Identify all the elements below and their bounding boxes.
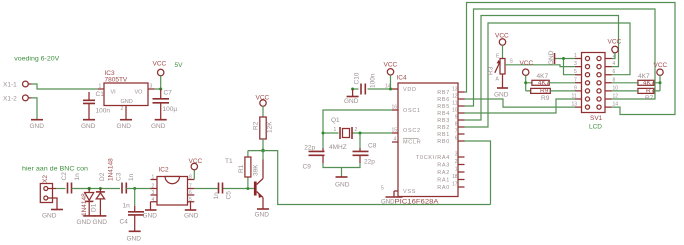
svg-text:1: 1 xyxy=(455,167,458,173)
svg-text:7: 7 xyxy=(189,184,192,190)
svg-text:7: 7 xyxy=(455,129,458,135)
svg-text:GND: GND xyxy=(121,99,133,105)
svg-text:RB2: RB2 xyxy=(437,125,450,131)
svg-text:1n: 1n xyxy=(128,173,135,181)
svg-text:RB0: RB0 xyxy=(437,139,450,145)
svg-text:GND: GND xyxy=(344,98,359,105)
svg-text:13: 13 xyxy=(452,87,458,93)
svg-text:GND: GND xyxy=(255,212,270,219)
svg-text:7: 7 xyxy=(574,77,577,83)
svg-text:1N4148: 1N4148 xyxy=(108,158,115,181)
svg-text:PIC16F628A: PIC16F628A xyxy=(395,199,440,206)
svg-text:4: 4 xyxy=(613,61,616,67)
svg-text:22p: 22p xyxy=(364,159,375,166)
svg-text:3: 3 xyxy=(150,84,153,90)
svg-text:T1: T1 xyxy=(225,158,233,165)
svg-text:100n: 100n xyxy=(370,73,377,88)
svg-text:1: 1 xyxy=(152,175,155,181)
svg-text:8: 8 xyxy=(189,175,192,181)
svg-text:GND: GND xyxy=(184,213,199,220)
svg-text:X2: X2 xyxy=(42,175,49,183)
svg-text:VCC: VCC xyxy=(608,39,622,46)
svg-text:R1: R1 xyxy=(238,164,245,173)
svg-text:4K7: 4K7 xyxy=(538,80,550,87)
svg-text:VCC: VCC xyxy=(495,33,509,40)
svg-text:39K: 39K xyxy=(253,164,260,176)
svg-text:C2: C2 xyxy=(61,172,68,181)
svg-text:C1: C1 xyxy=(96,91,105,98)
svg-text:VCC: VCC xyxy=(654,62,668,69)
svg-text:voeding 6-20V: voeding 6-20V xyxy=(14,56,60,63)
svg-text:7805TV: 7805TV xyxy=(105,77,128,84)
svg-text:OSC2: OSC2 xyxy=(403,128,421,134)
svg-text:C9: C9 xyxy=(303,164,312,171)
svg-text:IC4: IC4 xyxy=(397,75,408,82)
svg-text:X1-2: X1-2 xyxy=(3,96,17,103)
svg-text:1n: 1n xyxy=(123,203,131,210)
svg-text:C5: C5 xyxy=(226,191,233,200)
svg-text:R7: R7 xyxy=(645,95,654,102)
svg-text:100n: 100n xyxy=(96,108,111,115)
svg-text:3: 3 xyxy=(152,190,155,196)
svg-text:hier aan de BNC con: hier aan de BNC con xyxy=(22,166,88,173)
svg-text:1: 1 xyxy=(334,127,337,133)
svg-text:4MHZ: 4MHZ xyxy=(329,144,347,151)
svg-text:100µ: 100µ xyxy=(163,106,178,113)
svg-text:GND: GND xyxy=(335,182,350,189)
svg-text:RA1: RA1 xyxy=(437,178,450,184)
svg-text:T0CKI/RA4: T0CKI/RA4 xyxy=(416,155,450,161)
svg-text:VCC: VCC xyxy=(520,60,534,67)
svg-text:Q1: Q1 xyxy=(331,117,340,124)
svg-text:1N4148: 1N4148 xyxy=(81,193,88,216)
svg-text:3: 3 xyxy=(455,152,458,158)
svg-text:RB6: RB6 xyxy=(437,97,450,103)
svg-text:R2: R2 xyxy=(253,121,260,130)
svg-text:RA2: RA2 xyxy=(437,170,450,176)
svg-text:D2: D2 xyxy=(99,172,106,181)
svg-text:15: 15 xyxy=(391,128,397,134)
svg-text:4K7: 4K7 xyxy=(643,80,655,87)
svg-text:5V: 5V xyxy=(175,62,184,69)
svg-text:GND: GND xyxy=(151,123,166,130)
svg-text:GND: GND xyxy=(81,123,96,130)
svg-text:D1: D1 xyxy=(91,203,98,212)
svg-text:16: 16 xyxy=(391,105,397,111)
svg-text:RB7: RB7 xyxy=(437,90,450,96)
svg-text:6: 6 xyxy=(189,190,192,196)
svg-text:VCC: VCC xyxy=(256,95,270,102)
svg-text:14: 14 xyxy=(613,102,619,108)
svg-text:GND: GND xyxy=(77,219,92,226)
svg-text:6: 6 xyxy=(455,136,458,142)
svg-text:GND: GND xyxy=(117,123,132,130)
svg-text:3: 3 xyxy=(574,61,577,67)
svg-text:1n: 1n xyxy=(74,173,81,181)
svg-text:5: 5 xyxy=(574,69,577,75)
svg-text:VSS: VSS xyxy=(403,189,416,195)
svg-text:RA0: RA0 xyxy=(437,185,450,191)
svg-text:11: 11 xyxy=(572,94,577,100)
svg-text:4: 4 xyxy=(394,137,397,143)
svg-text:GND: GND xyxy=(93,219,108,226)
svg-text:14: 14 xyxy=(385,84,391,90)
svg-text:17: 17 xyxy=(452,182,458,188)
svg-text:6: 6 xyxy=(613,69,616,75)
svg-text:RB3: RB3 xyxy=(437,118,450,124)
svg-text:R9: R9 xyxy=(541,95,550,102)
svg-text:GND: GND xyxy=(127,236,142,243)
svg-text:12: 12 xyxy=(613,94,619,100)
svg-text:1n: 1n xyxy=(213,192,220,200)
svg-text:9: 9 xyxy=(574,85,577,91)
svg-text:GND: GND xyxy=(42,213,57,220)
svg-text:MCLR: MCLR xyxy=(403,140,421,146)
svg-text:VDD: VDD xyxy=(403,87,417,93)
svg-text:4: 4 xyxy=(152,197,155,203)
svg-text:R9: R9 xyxy=(540,88,549,95)
svg-text:GND: GND xyxy=(30,123,45,130)
svg-text:2: 2 xyxy=(455,159,458,165)
svg-text:18: 18 xyxy=(452,174,458,180)
svg-text:RB5: RB5 xyxy=(437,104,450,110)
svg-text:GND: GND xyxy=(548,50,555,65)
svg-text:GND: GND xyxy=(381,199,395,206)
svg-text:VI: VI xyxy=(111,90,117,96)
svg-text:2: 2 xyxy=(152,184,155,190)
svg-text:1: 1 xyxy=(574,53,577,59)
svg-text:VCC: VCC xyxy=(189,158,203,165)
svg-text:12: 12 xyxy=(452,94,458,100)
svg-text:R7: R7 xyxy=(646,88,655,95)
svg-text:2: 2 xyxy=(355,127,358,133)
svg-text:5: 5 xyxy=(381,186,384,192)
svg-text:LCD: LCD xyxy=(589,124,602,131)
svg-text:C4: C4 xyxy=(120,219,129,226)
svg-text:RB4: RB4 xyxy=(437,111,450,117)
svg-text:12K: 12K xyxy=(267,121,274,133)
svg-text:C7: C7 xyxy=(164,90,173,97)
svg-text:1: 1 xyxy=(99,84,102,90)
svg-text:OSC1: OSC1 xyxy=(403,108,421,114)
svg-text:IC2: IC2 xyxy=(159,167,170,174)
svg-text:RB1: RB1 xyxy=(437,132,450,138)
svg-text:8: 8 xyxy=(455,122,458,128)
svg-text:C10: C10 xyxy=(354,72,361,84)
svg-text:11: 11 xyxy=(452,101,457,107)
svg-text:VCC: VCC xyxy=(384,61,398,68)
svg-text:GND: GND xyxy=(143,213,158,220)
svg-text:GND: GND xyxy=(494,91,509,98)
svg-text:10: 10 xyxy=(452,108,458,114)
svg-text:VCC: VCC xyxy=(153,61,167,68)
svg-text:X1-1: X1-1 xyxy=(3,82,17,89)
svg-text:SV1: SV1 xyxy=(590,115,603,122)
svg-text:2: 2 xyxy=(121,106,124,112)
svg-text:RA3: RA3 xyxy=(437,163,450,169)
svg-text:C8: C8 xyxy=(368,143,377,150)
svg-text:9: 9 xyxy=(455,115,458,121)
svg-text:22p: 22p xyxy=(304,145,315,152)
svg-text:R3: R3 xyxy=(488,66,495,75)
svg-text:13: 13 xyxy=(572,102,578,108)
svg-text:C3: C3 xyxy=(116,172,123,181)
svg-text:VO: VO xyxy=(135,90,144,96)
